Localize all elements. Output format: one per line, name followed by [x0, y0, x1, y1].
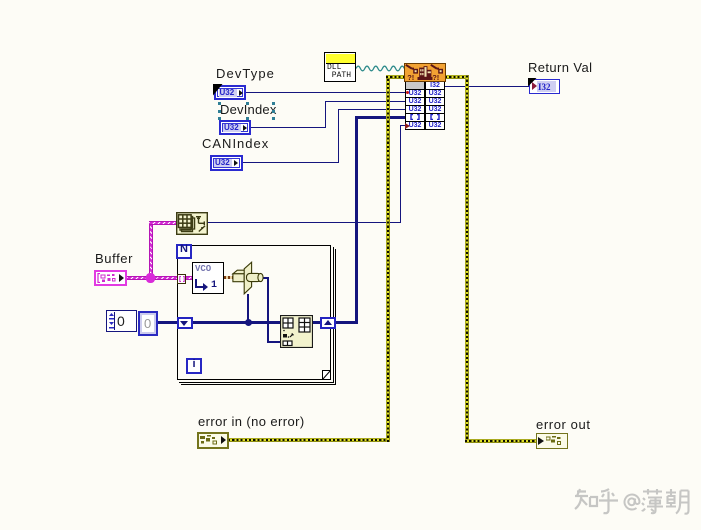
bo	[642, 489, 663, 513]
CLFN node	[405, 64, 445, 130]
teal zigzag wire	[356, 64, 405, 73]
chao	[666, 489, 689, 514]
label error out	[536, 417, 591, 432]
N terminal	[176, 244, 192, 259]
CANIndex terminal	[210, 155, 243, 171]
replace array subset node	[280, 315, 313, 348]
wire array-size to CLFN row6	[207, 222, 401, 223]
label Return Val	[528, 60, 592, 75]
wire pink tunnel to VCO	[185, 276, 193, 280]
DevIndex terminal	[219, 120, 251, 135]
coercion arrow row6	[405, 123, 410, 129]
loop echo lines	[333, 247, 334, 382]
at sign	[625, 495, 640, 510]
coercion dot row2	[406, 91, 409, 94]
label CANIndex	[202, 136, 269, 151]
wire array (thick) loop to CLFN row5	[336, 321, 358, 324]
wire error in	[228, 438, 389, 442]
error out indicator	[536, 433, 568, 449]
svg-text:?!: ?!	[432, 73, 439, 82]
array size node	[176, 212, 208, 235]
error in control	[197, 432, 229, 449]
brown cluster wire	[224, 276, 234, 279]
CLFN header	[404, 63, 446, 82]
hu	[599, 489, 618, 513]
left shift register	[177, 317, 193, 329]
loop fold corner	[322, 370, 332, 381]
selection handles around DevIndex	[0, 0, 701, 1]
wire DevType to CLFN row2	[246, 92, 405, 93]
Buffer control	[94, 270, 127, 286]
Return Val indicator	[529, 79, 560, 94]
typecast icon	[230, 259, 266, 297]
label DevIndex	[220, 102, 277, 117]
VCO subvi	[192, 262, 224, 294]
cells drawn below via js-free absolute divs inserted here	[0, 0, 701, 1]
i terminal	[186, 358, 202, 374]
CLFN cells	[405, 82, 445, 131]
label error in (no error)	[198, 414, 305, 429]
loop tunnel []	[177, 274, 186, 284]
right shift register	[320, 317, 336, 329]
typecast out wire	[263, 277, 269, 280]
wire buffer pink	[127, 276, 177, 280]
watermark 知乎 @薄朝	[572, 488, 692, 516]
wire I32 return	[445, 86, 529, 87]
DevType terminal	[214, 85, 246, 100]
wire error out	[445, 75, 469, 79]
zhi	[575, 489, 597, 509]
DLL PATH constant	[324, 52, 356, 82]
for loop border	[177, 245, 331, 380]
numeric control with spinner	[106, 310, 137, 332]
numeric wire into left SR	[158, 321, 177, 324]
numeric constant lavender	[138, 311, 158, 336]
svg-text:?!: ?!	[407, 73, 414, 82]
wire CANIndex to CLFN row4	[242, 162, 339, 163]
typecast down wire + junction	[247, 294, 250, 323]
loop internal main wire	[192, 321, 280, 324]
wire DevIndex to CLFN row3	[250, 127, 326, 128]
label DevType	[216, 66, 275, 81]
label Buffer	[95, 251, 133, 266]
